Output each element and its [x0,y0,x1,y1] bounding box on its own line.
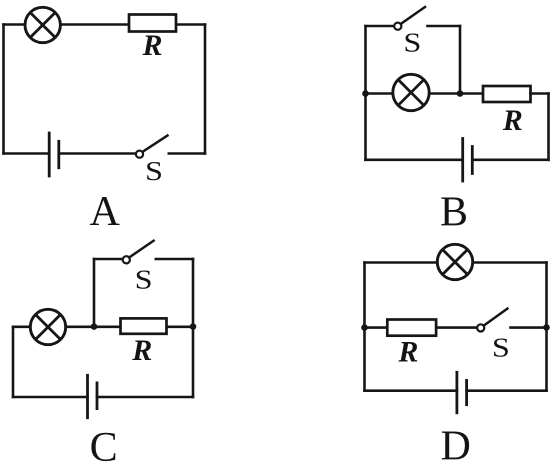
resistor R (A) [129,15,176,32]
wire D top [365,261,547,264]
wire D left vertical [363,263,366,391]
svg-text:R: R [141,29,162,62]
wire C bottom-left (to battery) [13,396,88,399]
wire C switch-branch left drop [93,259,96,327]
wire B bottom-left (to battery) [366,159,463,162]
wire B right vertical [547,94,550,160]
wire B right drop of switch branch [459,26,462,94]
wire C middle row [13,325,193,328]
node C right junction [190,323,197,330]
svg-text:C: C [90,425,118,462]
wire B middle row [366,92,484,95]
wire D bottom-left (to battery) [365,389,457,392]
svg-text:A: A [90,189,121,235]
wire A bottom-left (to battery) [4,152,50,155]
wire A bottom-mid (battery to switch) [59,152,136,155]
svg-text:R: R [502,104,523,137]
wire A top [4,23,206,26]
wire B switch-branch left [366,25,394,28]
wire C right vertical [192,259,195,397]
battery A [49,133,59,176]
battery D [457,372,467,413]
wire D bottom-right [467,389,547,392]
wire C switch-branch left [94,258,122,261]
node D left junction [361,324,368,331]
node B left junction [362,90,369,97]
svg-text:S: S [145,156,163,186]
lamp D [437,244,472,279]
wire A right [204,25,207,154]
resistor R (D) [387,320,436,336]
switch S (B) [394,7,425,30]
battery C [88,375,98,417]
wire A left [2,25,5,154]
wire C switch-branch right [156,258,193,261]
svg-text:R: R [397,335,418,368]
wire B left vertical [364,26,367,160]
node D right junction [543,324,550,331]
svg-text:S: S [135,265,153,295]
lamp A [25,7,60,42]
resistor R (B) [483,86,531,102]
lamp B [393,74,429,110]
node C left junction [91,323,98,330]
svg-text:D: D [441,424,471,462]
wire B switch-branch right [428,25,461,28]
svg-text:S: S [403,27,421,57]
wire A bottom-right (switch to corner) [169,152,205,155]
switch S (A) [136,136,168,158]
switch S (D) [477,309,507,332]
switch S (C) [123,241,154,264]
lamp C [30,309,65,344]
battery B [463,139,473,182]
svg-text:B: B [440,190,468,236]
wire C left vertical [12,327,15,397]
wire B middle to right corner [531,92,549,95]
node B right junction [457,90,464,97]
wire D right vertical [545,263,548,391]
svg-text:R: R [131,334,152,367]
resistor R (C) [121,318,167,333]
wire D middle-right (switch to corner) [511,326,547,329]
svg-text:S: S [492,333,510,363]
wire C bottom-right [97,396,193,399]
wire B bottom-right [472,159,548,162]
wire D middle-left (to resistor and switch) [365,326,477,329]
